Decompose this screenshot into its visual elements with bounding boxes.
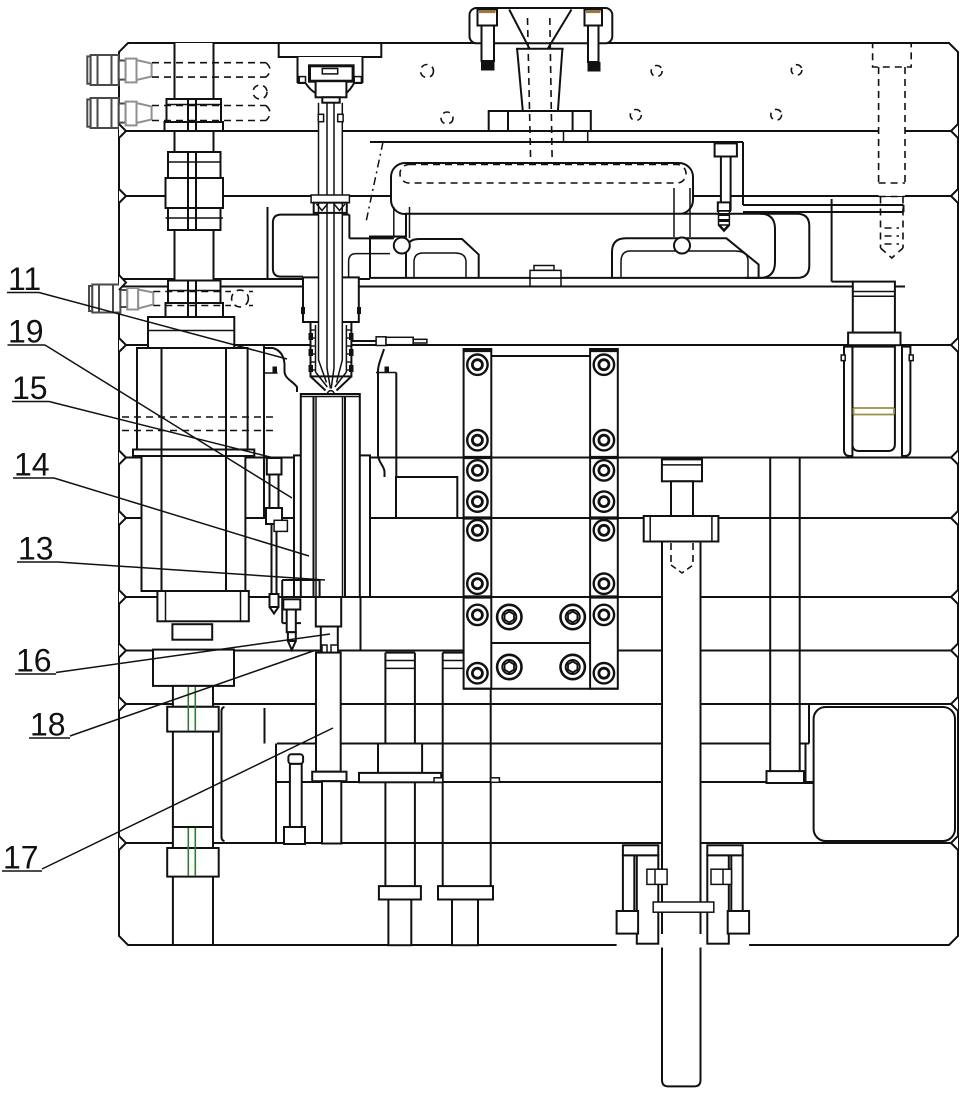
svg-text:16: 16	[16, 643, 52, 679]
svg-text:11: 11	[8, 261, 41, 297]
svg-text:17: 17	[3, 840, 39, 876]
svg-text:14: 14	[14, 447, 50, 483]
svg-text:18: 18	[30, 707, 66, 743]
svg-text:13: 13	[18, 531, 54, 567]
svg-text:15: 15	[12, 370, 48, 406]
svg-text:19: 19	[8, 314, 44, 350]
